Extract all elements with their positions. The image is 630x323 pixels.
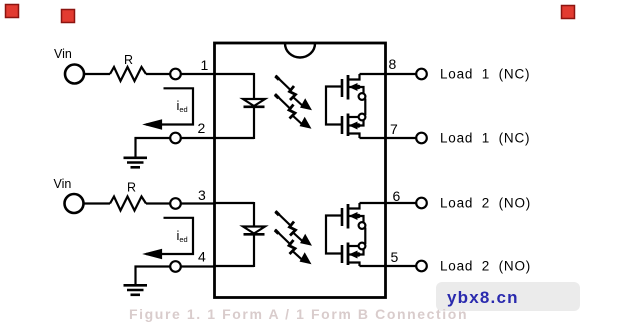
iF1 current loop bracket [146, 88, 193, 124]
wire R2 to pin3 node [146, 202, 170, 204]
MOSFET Q1a body dot [356, 85, 360, 89]
MOSFET Q2b body tap with arrow [348, 249, 364, 255]
pin 2 terminal circle [170, 133, 181, 144]
wire source connector Q1a-Q1b [364, 99, 366, 116]
wire pin1 node to package [181, 73, 214, 75]
wire Q1a drain to pin8 [360, 73, 417, 75]
LED D2 cathode wire [253, 234, 255, 267]
svg-text:3: 3 [198, 187, 206, 203]
MOSFET Q1 gate bracket [326, 87, 341, 125]
wire pin2 inner [215, 137, 254, 139]
svg-text:R: R [124, 53, 133, 67]
red marker square 3 [562, 6, 575, 19]
iF2 arrowhead [147, 250, 162, 258]
ground 1 stem [134, 137, 136, 158]
MOSFET Q2a gate plate [341, 208, 344, 226]
light arrow 1b [275, 94, 311, 128]
LED D2 triangle [243, 227, 265, 234]
svg-text:Vin: Vin [54, 47, 72, 61]
wire Vin2 to resistor R2 [84, 202, 111, 204]
iF2 current loop bracket [146, 218, 193, 254]
svg-text:ybx8.cn: ybx8.cn [447, 288, 519, 307]
ground 1 bars [124, 157, 148, 160]
wire Q2b drain to pin5 [360, 265, 417, 267]
LED D2 cathode bar [244, 233, 265, 236]
light arrow 2b [275, 230, 311, 264]
wire pin4 inner [215, 265, 254, 267]
svg-text:6: 6 [393, 188, 401, 204]
MOSFET Q2a body tap with arrow [348, 216, 364, 222]
MOSFET Q2 gate bracket [326, 216, 341, 254]
watermark box [436, 282, 580, 311]
MOSFET Q2a drain tap [348, 203, 360, 209]
package notch [285, 44, 315, 58]
LED D2 anode wire [253, 202, 255, 226]
wire pin2 node to package [181, 137, 214, 139]
svg-text:Vin: Vin [54, 177, 72, 191]
MOSFET Q1b channel [347, 114, 350, 137]
svg-text:5: 5 [391, 249, 399, 265]
wire ground1 to pin2 [135, 137, 171, 139]
svg-text:2: 2 [198, 120, 206, 136]
MOSFET Q2b channel [347, 243, 350, 266]
pin 5 terminal circle [416, 261, 427, 272]
svg-text:Load 1 (NC): Load 1 (NC) [440, 131, 530, 146]
iF1 arrowhead [147, 121, 162, 129]
wire ground2 to pin4 [135, 265, 171, 267]
red marker square 2 [62, 10, 75, 23]
pin 3 terminal circle [170, 198, 181, 209]
MOSFET Q1a gate plate [341, 79, 344, 97]
red marker square 1 [6, 5, 19, 18]
wire pin3 inner [215, 202, 254, 204]
MOSFET Q1b drain tap [348, 134, 360, 139]
pin 6 terminal circle [416, 198, 427, 209]
MOSFET Q1a body arrow [350, 84, 357, 90]
pin 4 terminal circle [170, 261, 181, 272]
resistor R2 zigzag [110, 197, 146, 211]
svg-text:Load 1 (NC): Load 1 (NC) [440, 67, 530, 82]
MOSFET Q2b source tap [348, 245, 359, 247]
MOSFET Q2b body dot [356, 252, 360, 256]
pin 1 terminal circle [170, 69, 181, 80]
MOSFET Q1a drain tap [348, 74, 360, 80]
svg-text:7: 7 [390, 121, 398, 137]
svg-text:4: 4 [198, 249, 206, 265]
svg-text:1: 1 [201, 57, 209, 73]
svg-text:R: R [127, 181, 136, 195]
terminal Vin2 circle [65, 194, 84, 213]
svg-text:8: 8 [389, 56, 397, 72]
wire Vin1 to resistor R1 [84, 73, 110, 75]
MOSFET Q2b gate plate [341, 245, 344, 263]
package outline U1 [215, 43, 386, 298]
wire Q1b drain to pin7 [360, 137, 417, 139]
ground 2 stem [134, 266, 136, 286]
svg-text:Load 2 (NO): Load 2 (NO) [440, 196, 531, 211]
wire pin3 node to package [181, 202, 214, 204]
wire R1 to pin1 node [146, 73, 170, 75]
resistor R1 zigzag [110, 67, 146, 81]
MOSFET Q1a channel [347, 75, 350, 100]
ground 2 bars [124, 284, 148, 287]
MOSFET Q2a source circle [359, 222, 366, 229]
MOSFET Q2b body arrow [350, 251, 357, 257]
wire Q2a drain to pin6 [360, 202, 417, 204]
wire pin1 inner [215, 73, 254, 75]
wire source connector Q2a-Q2b [364, 228, 366, 245]
MOSFET Q1b source tap [348, 116, 359, 118]
LED D1 triangle [243, 99, 265, 106]
MOSFET Q2b source circle [359, 243, 366, 250]
svg-text:Load 2 (NO): Load 2 (NO) [440, 259, 531, 274]
terminal Vin1 circle [65, 65, 84, 84]
light arrow 2a [276, 211, 312, 245]
pin 8 terminal circle [416, 69, 427, 80]
light arrow 1a [276, 76, 312, 110]
MOSFET Q2b drain tap [348, 263, 360, 267]
MOSFET Q1b body tap with arrow [348, 120, 364, 126]
LED D1 cathode bar [244, 106, 265, 109]
LED D1 cathode wire [253, 107, 255, 139]
MOSFET Q1b body arrow [350, 122, 357, 128]
MOSFET Q2a body arrow [350, 213, 357, 219]
LED D1 anode wire [253, 73, 255, 98]
pin 7 terminal circle [416, 133, 427, 144]
MOSFET Q2a channel [347, 204, 350, 229]
MOSFET Q1b source circle [359, 114, 366, 121]
MOSFET Q1b gate plate [341, 116, 344, 134]
MOSFET Q1a body tap with arrow [348, 87, 364, 93]
MOSFET Q2a body dot [356, 214, 360, 218]
wire pin4 node to package [181, 265, 214, 267]
MOSFET Q1b body dot [356, 123, 360, 127]
svg-text:Figure 1. 1 Form A / 1 Form B: Figure 1. 1 Form A / 1 Form B Connection [129, 306, 468, 322]
MOSFET Q1a source circle [359, 93, 366, 100]
